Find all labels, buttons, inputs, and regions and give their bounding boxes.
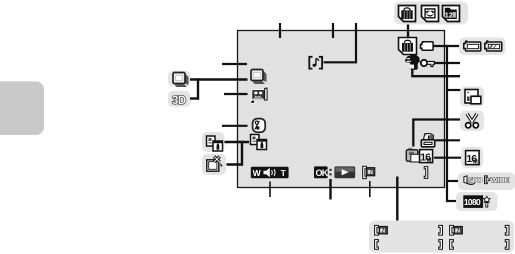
label box: 1080 (456, 192, 498, 211)
text: exposures row2 open bracket 2 (bottom box) (450, 240, 454, 250)
icon: briefcase (inside screen) (399, 38, 417, 55)
svg-text:STD: STD (468, 176, 483, 185)
icon: voice memo note (inside screen) (309, 57, 322, 69)
label box: scissors (460, 111, 484, 132)
icon: 3D text (label box) (172, 95, 186, 107)
svg-text:IN: IN (455, 229, 460, 235)
wire: briefcase drop line (407, 24, 409, 38)
svg-text:12: 12 (445, 11, 453, 20)
wire: retouch box line (227, 163, 244, 165)
wire: scissors line (413, 120, 460, 147)
label box: playback modes (top) (394, 2, 468, 25)
icon: print order frames (inside screen) (251, 135, 267, 150)
svg-text:WIDE: WIDE (490, 176, 509, 185)
icon: skin softening (inside screen) (253, 119, 266, 133)
icon: retouch X frame (label box) (207, 156, 223, 171)
wire: voice memo callout corner (324, 23, 357, 62)
icon: movie 1080 (label box) (463, 195, 490, 208)
icon: battery (inside screen) (421, 42, 434, 51)
svg-text:3D: 3D (172, 95, 186, 107)
icon: camera (inside screen) (406, 148, 419, 162)
svg-text:1080: 1080 (464, 197, 481, 207)
label box: copy-frames (202, 132, 225, 152)
wire: 16M callout (434, 157, 462, 159)
wire: key callout (435, 62, 461, 64)
icon: 16M size (label box) (466, 151, 480, 166)
wire: right rail vertical (446, 45, 448, 202)
icon: briefcase mode (top box) (399, 6, 416, 22)
text: exposures row IN 1 (bottom box) (375, 225, 388, 235)
text: exposures row bracket 2 (bottom box) (505, 225, 509, 235)
text: exposures row bracket 1 (bottom box) (439, 225, 443, 235)
wire: sequence callout line (190, 78, 248, 80)
svg-text:M: M (473, 159, 478, 165)
label box: sequence (168, 71, 190, 87)
label box: exposures bottom (369, 221, 514, 253)
svg-text:W: W (253, 168, 262, 178)
wire: bottom tick play (329, 179, 331, 200)
svg-text:T: T (281, 168, 287, 178)
icon: movie face (inside screen) (250, 86, 268, 103)
wire: retouch connector vertical (241, 141, 243, 166)
left gray tab (0, 82, 44, 136)
icon: movie WIDE (label box) (485, 176, 510, 185)
wire: left tick row2 (224, 93, 248, 95)
icon: closing bracket (inside screen) (424, 167, 428, 179)
label box: rotate (460, 87, 484, 107)
svg-text:IN: IN (368, 170, 373, 176)
monitor screen frame (238, 31, 445, 188)
wire: blob drop and callout (412, 69, 460, 77)
wire: left tick row3 (222, 125, 248, 127)
wire: 3D box line (190, 97, 199, 99)
icon: sequence stack (label box) (173, 73, 189, 88)
text: exposures row2 close bracket 1 (bottom box) (439, 240, 443, 250)
icon: protect key (inside screen) (421, 60, 435, 67)
label box: 3D (168, 91, 190, 107)
control: volume W-T bar (inside screen) (251, 167, 289, 178)
icon: movie STD (label box) (464, 176, 483, 185)
icon: 16M size (inside screen) (420, 150, 433, 164)
wire: 3D connector vertical (197, 78, 199, 99)
icon: list by date mode (top box) (443, 6, 460, 22)
icon: print order frames (label box) (207, 136, 223, 151)
wire: battery callout (433, 45, 459, 47)
svg-text:OK: OK (316, 168, 329, 178)
svg-text:IN: IN (380, 229, 385, 235)
wire: top tick 2 (332, 23, 334, 38)
text: exposures row2 open bracket 1 (bottom box) (375, 240, 379, 250)
wire: bottom tick volume (269, 182, 271, 198)
icon: battery full (label box) (464, 41, 481, 51)
icon: printer DPOF (inside screen) (421, 134, 434, 147)
icon: protect blob (inside screen) (405, 55, 420, 70)
control: OK play (inside screen) (314, 166, 355, 178)
wire: STD-WIDE branch (447, 180, 459, 182)
icon: crop rotate (label box) (465, 90, 481, 104)
icon: sequence stack (inside screen) (251, 70, 267, 85)
label box: batteries (459, 38, 506, 56)
wire: rotate branch (447, 89, 461, 91)
text: exposures row2 close bracket 2 (bottom box) (505, 240, 509, 250)
wire: bottom tick IN (369, 181, 371, 197)
wire: top tick 1 (279, 23, 281, 38)
label box: retouch (202, 154, 226, 175)
wire: copy-frames callout line (225, 141, 250, 143)
svg-text:M: M (427, 158, 432, 164)
icon: scissors crop (label box) (466, 114, 479, 128)
icon: internal memory IN (inside screen) (363, 166, 375, 178)
wire: printer callout (436, 139, 461, 141)
wire: 1080 branch (447, 200, 459, 202)
icon: smart portrait mode (top box) (422, 6, 439, 22)
wire: left tick row1 (222, 63, 247, 65)
label box: 16M (461, 147, 483, 168)
wire: bottom long drop (396, 177, 398, 221)
label box: STD WIDE (458, 173, 515, 191)
icon: battery half (label box) (485, 41, 502, 51)
text: exposures row IN 2 (bottom box) (450, 225, 463, 235)
